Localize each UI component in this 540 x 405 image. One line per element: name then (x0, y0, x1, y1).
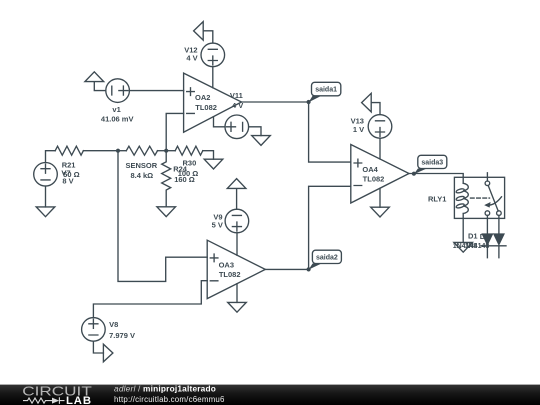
wire V8 minus to flag (93, 341, 103, 353)
svg-text:R21: R21 (62, 160, 76, 169)
ground G1 (36, 207, 55, 217)
relay switch arm (488, 186, 498, 212)
voltage source V13 (368, 115, 392, 139)
wire OA2 - input to node (166, 113, 183, 150)
wire OA4 V+ pin to V13 (379, 138, 381, 159)
wire OA3 output to saida2 node (265, 268, 308, 270)
wire OA2 V+ pin to V12 (212, 67, 214, 88)
resistor SENSOR (126, 146, 157, 155)
power flag arrow A4 (up) at V9 (227, 179, 246, 210)
svg-text:8.4 kΩ: 8.4 kΩ (130, 171, 153, 180)
wire OA3 - input to V8 (93, 281, 207, 318)
relay pin wires to diodes (487, 215, 499, 234)
svg-text:LAB: LAB (66, 395, 92, 405)
svg-text:4 V: 4 V (232, 101, 243, 110)
wire V11 to ground (249, 127, 261, 136)
svg-text:D2: D2 (480, 232, 490, 241)
ground G4 (252, 136, 271, 146)
wire R21 to node A (83, 150, 118, 152)
svg-text:v1: v1 (112, 105, 120, 114)
diode D1 (482, 234, 492, 244)
node B junction (164, 149, 168, 153)
net flag saida3 (414, 155, 447, 174)
svg-text:V11: V11 (230, 91, 243, 100)
relay actuation dashed link (471, 197, 490, 199)
svg-text:OA2: OA2 (195, 93, 210, 102)
voltage source V8 (82, 318, 106, 342)
svg-text:160 Ω: 160 Ω (174, 175, 195, 184)
op-amp OA3 (207, 240, 265, 298)
svg-text:http://circuitlab.com/c6emmu6: http://circuitlab.com/c6emmu6 (114, 395, 225, 404)
wire OA2 V- pin to V11 (214, 117, 226, 127)
svg-text:V8: V8 (109, 320, 118, 329)
svg-text:7.979 V: 7.979 V (109, 331, 135, 340)
svg-text:4 V: 4 V (186, 54, 197, 63)
ground G3 (204, 159, 223, 169)
logo resistor-diode glyph (23, 397, 65, 404)
relay actuation arrow (484, 197, 501, 208)
wire OA4 V- pin to ground (379, 188, 381, 207)
resistor R30 (175, 146, 203, 155)
relay RLY1 coil (456, 183, 469, 213)
relay switch common pin (486, 173, 488, 181)
wire R30 to ground (203, 151, 214, 160)
resistor R21 (55, 146, 83, 155)
wire OA2 output to saida1 node (242, 101, 309, 103)
wire OA3 V- pin to ground (236, 284, 238, 303)
node saida2 junction (307, 267, 311, 271)
svg-text:D1: D1 (468, 232, 478, 241)
svg-text:OA4: OA4 (362, 165, 378, 174)
wire OA3 V+ pin to V9 (236, 233, 238, 255)
voltage source V12 (201, 43, 225, 67)
svg-text:RLY1: RLY1 (428, 195, 446, 204)
relay coil wire to ground (462, 214, 464, 243)
voltage source V7 (34, 163, 58, 187)
svg-text:SENSOR: SENSOR (125, 161, 157, 170)
power flag arrow A5 (right) at V8 (103, 344, 113, 362)
net flag saida2 (309, 250, 342, 269)
svg-text:V13: V13 (351, 116, 364, 125)
svg-text:50 Ω: 50 Ω (63, 170, 79, 179)
wire V7 minus to ground (45, 186, 47, 207)
node saida1 junction (307, 100, 311, 104)
wire v1 to OA2 + input (129, 90, 183, 92)
svg-text:saida1: saida1 (315, 87, 337, 94)
wire SENSOR to node B (158, 150, 167, 152)
relay RLY1 box (454, 177, 504, 218)
diode cathode bar (481, 245, 506, 247)
voltage source V9 (225, 209, 249, 233)
resistor R24 (162, 151, 171, 207)
power flag arrow A1 (up) at v1 (85, 72, 106, 91)
net flag saida1 (309, 82, 341, 102)
svg-text:OA3: OA3 (219, 260, 234, 269)
wire node A to SENSOR (118, 150, 126, 152)
wire OA4 output to relay (409, 174, 463, 184)
svg-text:1 V: 1 V (353, 125, 364, 134)
svg-text:TL082: TL082 (363, 174, 385, 183)
wire OA4 - input to saida2 node (309, 186, 351, 269)
wire saida1 to OA4 + input (309, 102, 351, 162)
op-amp OA2 (184, 73, 242, 132)
svg-text:5 V: 5 V (212, 221, 223, 230)
svg-text:41.06 mV: 41.06 mV (101, 115, 134, 124)
ground G7 (454, 242, 473, 252)
ground G6 (228, 302, 247, 312)
svg-text:adlerl / miniproj1alterado: adlerl / miniproj1alterado (114, 383, 216, 393)
svg-text:saida3: saida3 (421, 160, 443, 167)
svg-text:saida2: saida2 (316, 255, 338, 262)
node A junction (116, 149, 120, 153)
voltage source v1 (106, 79, 130, 103)
voltage source V11 (225, 115, 249, 139)
wire node B to R30 (166, 150, 175, 152)
ground G2 (157, 207, 176, 217)
wire node A to OA3 + input (118, 151, 207, 282)
node saida3 junction (412, 172, 416, 176)
ground G5 (371, 207, 390, 217)
svg-text:1N4148: 1N4148 (465, 243, 490, 250)
wire V7 to rail (46, 151, 56, 163)
power flag arrow A2 (left) at V12 (194, 22, 213, 43)
diode D2 (494, 234, 504, 244)
relay switch contacts (485, 181, 501, 215)
power flag arrow A3 (left) at V13 (362, 93, 380, 114)
op-amp OA4 (351, 145, 409, 204)
svg-text:R24: R24 (173, 164, 188, 173)
svg-text:TL082: TL082 (219, 270, 241, 279)
svg-text:TL082: TL082 (195, 103, 217, 112)
wire below diodes (487, 246, 499, 258)
